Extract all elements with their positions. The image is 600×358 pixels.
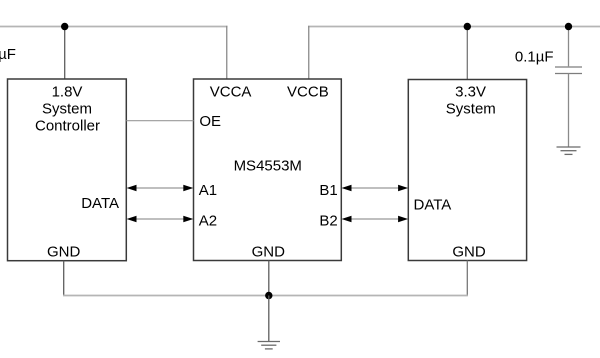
wire: bottom ground rail (63, 295, 468, 297)
svg-text:0.1µF: 0.1µF (515, 49, 554, 66)
svg-text:B1: B1 (319, 182, 337, 199)
svg-text:DATA: DATA (414, 197, 452, 214)
block: MS4553M level translator (194, 79, 342, 261)
wire: junction to ground symbol (268, 296, 270, 342)
block: 3.3V System (408, 80, 526, 261)
svg-text:GND: GND (252, 244, 286, 261)
svg-text:Controller: Controller (35, 118, 100, 135)
wire: B1 bidirectional arrow (342, 185, 409, 192)
svg-text:A2: A2 (199, 213, 217, 230)
wire: capacitor C2 to ground (568, 74, 570, 148)
wire: A1 bidirectional arrow (127, 185, 194, 192)
svg-text:1.8V: 1.8V (52, 83, 83, 100)
wire: VCCB top supply rail (right) (308, 26, 600, 28)
node: junction at 3.3V system (464, 23, 471, 30)
svg-text:A1: A1 (199, 182, 217, 199)
svg-text:MS4553M: MS4553M (234, 157, 302, 174)
wire: VCCA top supply rail (left) (0, 26, 228, 28)
svg-text:VCCB: VCCB (287, 84, 329, 101)
node: junction at capacitor C2 (565, 23, 572, 30)
wire: OE connection (126, 120, 193, 122)
svg-text:DATA: DATA (81, 195, 119, 212)
svg-text:VCCA: VCCA (210, 84, 252, 101)
capacitor C2 value 0.1uF (555, 67, 582, 74)
svg-text:GND: GND (47, 244, 81, 261)
wire: VCCA drop to MS4553M (226, 26, 228, 80)
wire: B2 bidirectional arrow (342, 216, 409, 223)
block: 1.8V System Controller (8, 79, 127, 261)
svg-text:0.1µF: 0.1µF (0, 46, 16, 63)
wire: A2 bidirectional arrow (127, 216, 194, 223)
node: junction on left rail (61, 23, 68, 30)
svg-text:OE: OE (199, 113, 221, 130)
node: ground junction (265, 292, 272, 299)
wire: VCCB drop to MS4553M (308, 26, 310, 80)
wire: drop to capacitor C2 (568, 27, 570, 67)
svg-text:System: System (446, 101, 496, 118)
wire: 3.3V box GND drop (466, 261, 468, 297)
wire: MS4553M GND drop (268, 261, 270, 297)
wire: 1.8V box GND drop (63, 261, 65, 296)
wire: drop to 3.3V system VCC (466, 27, 468, 80)
svg-text:3.3V: 3.3V (455, 83, 486, 100)
svg-text:B2: B2 (319, 213, 337, 230)
svg-text:GND: GND (452, 244, 486, 261)
svg-text:System: System (42, 101, 92, 118)
wire: drop to 1.8V controller VCC (64, 27, 66, 80)
ground: below capacitor C2 (557, 147, 581, 154)
ground: main ground symbol (258, 342, 280, 349)
